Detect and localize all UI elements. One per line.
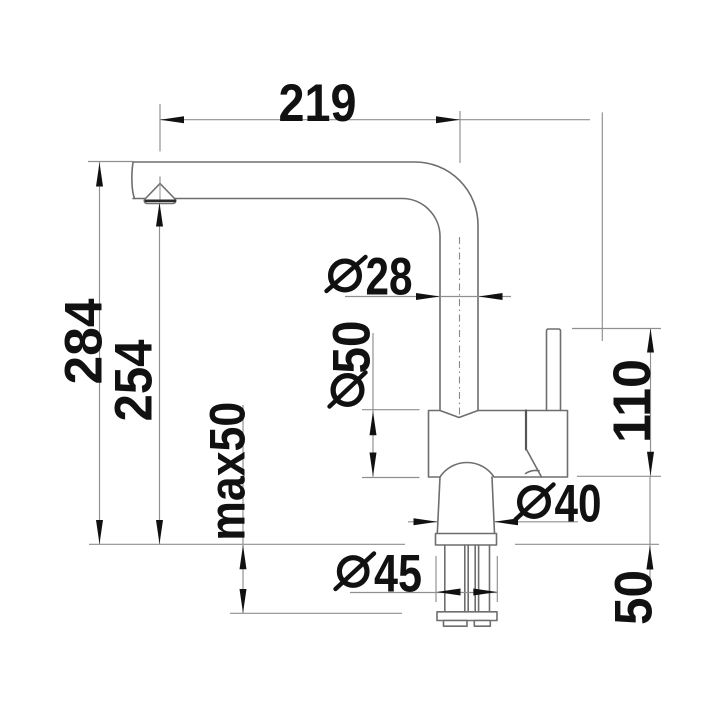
arrow 110 top (647, 329, 654, 353)
tube centerline (dashed) (459, 237, 461, 416)
ext bottom of 110 (577, 475, 661, 477)
svg-text:28: 28 (366, 248, 413, 307)
arrow 254 top (156, 203, 163, 227)
aerator centerline through tip (159, 184, 161, 201)
tab right (474, 621, 490, 627)
arrow Ø28 right (479, 293, 503, 300)
flange (436, 534, 497, 546)
spout left end (132, 162, 135, 199)
spout arm outer (133, 162, 478, 411)
arrow 284 bottom (96, 520, 103, 544)
arrow Ø45 right (473, 589, 497, 596)
body interior small curve (526, 470, 540, 473)
arrow Ø40 left (414, 518, 438, 525)
shank inner tube (465, 545, 479, 612)
ext top of 284 (88, 161, 133, 163)
ext bottom of Ø50 (362, 477, 420, 479)
svg-text:110: 110 (603, 359, 662, 443)
ext bottom of max50 (230, 612, 402, 614)
aerator dark base (146, 200, 175, 203)
ext left of Ø45 (435, 556, 437, 602)
dim line 254 (159, 203, 161, 545)
arrow Ø40 right (494, 518, 518, 525)
nut (437, 612, 497, 621)
label Ø45: diameter symbol (339, 558, 367, 586)
ext right of 219 (459, 111, 461, 163)
body interior joint line (525, 411, 527, 450)
long vertical reference line (601, 112, 603, 341)
arrow Ø50 bottom (370, 453, 377, 477)
svg-text:50: 50 (604, 570, 663, 625)
arrow 50 top (646, 546, 653, 570)
arrow max50 bottom (240, 589, 247, 613)
dim line 110 (650, 329, 652, 476)
arrow 254 bottom (156, 520, 163, 544)
svg-text:40: 40 (555, 474, 602, 533)
countertop line right (515, 543, 659, 545)
body interior diagonal (527, 450, 542, 478)
dim line Ø40 right (494, 521, 578, 523)
arrow 219 left (160, 116, 184, 123)
svg-text:50: 50 (322, 321, 381, 374)
svg-text:219: 219 (279, 74, 357, 133)
dim leader max50 upper (242, 405, 244, 544)
ext left of 219 (159, 104, 161, 152)
arrow Ø28 left (416, 293, 440, 300)
neck left edge (437, 477, 440, 534)
arrow Ø50 top (370, 411, 377, 435)
label Ø28: diameter symbol (331, 261, 360, 290)
svg-text:max50: max50 (200, 402, 256, 541)
arrow 110 bottom (647, 452, 654, 476)
aerator tip (144, 184, 175, 204)
dim line 219 (160, 119, 590, 121)
dim line 50 (649, 476, 651, 591)
dim line Ø28 (345, 296, 511, 298)
spout arm inner/bottom (133, 199, 440, 411)
ext right of Ø45 (496, 556, 498, 602)
dim line 284 (99, 162, 101, 544)
tab left (444, 621, 468, 627)
ext top of Ø50 (362, 409, 420, 411)
dim line Ø50 (372, 333, 374, 477)
label Ø50: diameter symbol (333, 376, 362, 405)
arrow 284 top (96, 163, 103, 187)
svg-text:45: 45 (374, 544, 422, 603)
arrow 219 right (436, 116, 460, 123)
ext top of 110 (572, 328, 661, 330)
shank edges (445, 545, 490, 612)
dim line Ø40 left (408, 521, 438, 523)
body outline (429, 411, 568, 478)
svg-text:254: 254 (104, 339, 163, 421)
dim line max50 lower (242, 545, 244, 613)
arrow max50 top (240, 545, 247, 569)
label Ø40: diameter symbol (520, 488, 549, 517)
aerator centerline dash (159, 177, 161, 184)
countertop line left (89, 543, 405, 545)
neck right edge (492, 477, 495, 534)
dim line Ø45 (350, 592, 497, 594)
arrow Ø45 left (437, 589, 461, 596)
lever handle (547, 329, 561, 411)
